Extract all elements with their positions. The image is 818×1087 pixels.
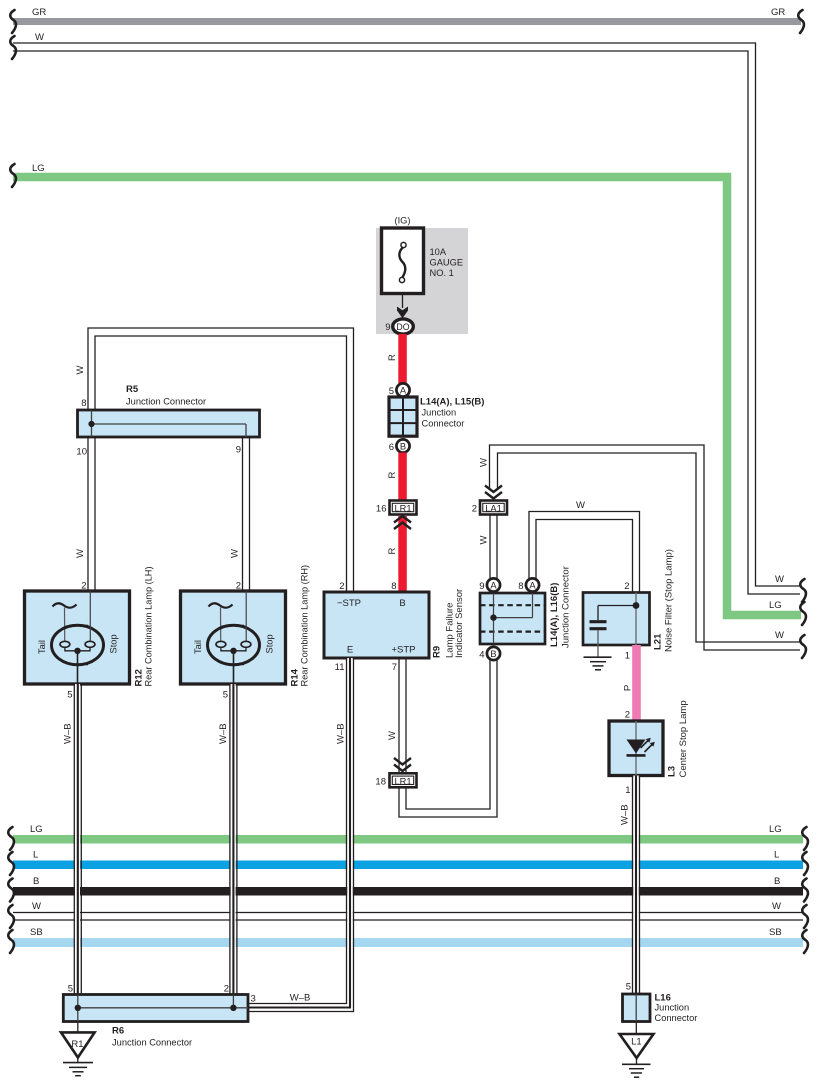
svg-text:L1: L1: [631, 1037, 642, 1048]
svg-text:SB: SB: [769, 927, 782, 938]
ground L1: [620, 1022, 654, 1078]
svg-text:Stop: Stop: [109, 634, 119, 653]
svg-text:GR: GR: [32, 7, 46, 18]
svg-text:L16: L16: [655, 992, 671, 1003]
svg-text:8: 8: [81, 398, 86, 409]
svg-text:DO: DO: [396, 322, 409, 332]
svg-text:B: B: [774, 876, 780, 887]
lamp failure indicator sensor R9: [324, 589, 465, 673]
svg-text:W: W: [576, 500, 585, 511]
terminal A pin 5: [389, 383, 410, 396]
svg-text:10A: 10A: [430, 247, 447, 257]
wire W from LA1 up, right, down to right-edge W stub: [479, 445, 806, 658]
svg-text:GAUGE: GAUGE: [430, 258, 464, 268]
svg-text:2: 2: [624, 581, 629, 592]
svg-text:5: 5: [389, 386, 394, 397]
svg-text:1: 1: [625, 651, 630, 662]
connector LA1 pin 2 (with down-chevron): [472, 486, 507, 515]
svg-text:W: W: [479, 535, 490, 544]
svg-text:L: L: [33, 850, 38, 861]
svg-text:A: A: [400, 385, 407, 395]
svg-text:B: B: [33, 876, 39, 887]
svg-text:W: W: [479, 458, 490, 467]
svg-text:9: 9: [236, 445, 241, 456]
svg-text:9: 9: [479, 581, 484, 592]
svg-text:L14(A), L16(B): L14(A), L16(B): [549, 583, 560, 647]
svg-text:E: E: [347, 645, 353, 656]
wire W, R9 pin 7 (+STP) down to connector LR1 pin 18, with down-chevron: [387, 658, 411, 774]
svg-text:Noise Filter (Stop Lamp): Noise Filter (Stop Lamp): [664, 549, 675, 652]
svg-text:W: W: [35, 32, 44, 43]
svg-text:W: W: [772, 901, 781, 912]
junction connector R5: [76, 384, 259, 458]
ground symbol at L21 capacitor: [584, 657, 612, 670]
svg-text:R: R: [387, 354, 398, 361]
svg-text:11: 11: [335, 662, 345, 673]
svg-text:LA1: LA1: [485, 504, 502, 514]
svg-text:4: 4: [479, 650, 484, 661]
wire W, R5 pin 8 up/right/down to R9 pin 2 (-STP): [75, 328, 354, 592]
svg-text:W: W: [230, 549, 241, 558]
svg-text:Junction: Junction: [655, 1003, 690, 1013]
svg-text:B: B: [490, 649, 496, 659]
bus GR (top): [10, 7, 804, 33]
wire fuse to terminal DO: [397, 294, 408, 319]
svg-text:A: A: [490, 580, 497, 590]
svg-text:W–B: W–B: [290, 993, 311, 1004]
svg-text:W: W: [75, 549, 86, 558]
svg-text:3: 3: [251, 994, 256, 1005]
svg-text:7: 7: [392, 662, 397, 673]
svg-text:5: 5: [67, 690, 72, 701]
svg-text:L3: L3: [667, 766, 678, 777]
svg-text:10: 10: [76, 447, 87, 458]
svg-text:5: 5: [223, 690, 228, 701]
svg-text:Center Stop Lamp: Center Stop Lamp: [678, 700, 689, 777]
svg-text:2: 2: [224, 984, 229, 995]
svg-text:(IG): (IG): [394, 216, 410, 226]
svg-text:B: B: [399, 598, 405, 609]
junction connector R6: [63, 984, 255, 1048]
wire R (red), LR1 to R9 pin 8, with up-chevron arrow: [387, 516, 411, 592]
svg-text:LR1: LR1: [394, 504, 411, 514]
svg-text:LG: LG: [769, 600, 782, 611]
svg-text:Tail: Tail: [193, 640, 203, 654]
svg-text:9: 9: [385, 322, 390, 333]
junction connector L16: [623, 992, 698, 1023]
fuse gray background: [376, 228, 468, 334]
svg-text:Rear Combination Lamp (LH): Rear Combination Lamp (LH): [144, 567, 154, 687]
svg-text:R9: R9: [432, 646, 443, 658]
svg-text:Connector: Connector: [655, 1013, 698, 1023]
svg-text:B: B: [400, 441, 406, 451]
terminal B pin 4: [479, 647, 500, 661]
terminal B pin 6: [389, 439, 410, 452]
svg-text:LG: LG: [30, 824, 43, 835]
wire W-B, R14 pin 5 down to R6 pin 2 (crosses buses): [218, 684, 237, 995]
svg-text:8: 8: [391, 581, 396, 592]
rear combination lamp R14 (RH): [181, 565, 310, 687]
svg-text:R5: R5: [126, 384, 139, 395]
junction connector L14(A), L15(B): [389, 397, 484, 437]
bus L (bottom): [8, 850, 808, 876]
svg-text:1: 1: [625, 785, 630, 796]
svg-text:5: 5: [68, 984, 73, 995]
fuse 10A GAUGE NO. 1 (IG): [382, 216, 464, 294]
bus LG, runs right then down to right-edge LG stub: [10, 163, 806, 625]
svg-text:W–B: W–B: [63, 723, 74, 744]
connector LR1 pin 18: [375, 773, 416, 787]
svg-text:GR: GR: [771, 7, 785, 18]
svg-text:LG: LG: [32, 163, 45, 174]
svg-text:R: R: [387, 547, 398, 554]
svg-text:−STP: −STP: [337, 598, 361, 609]
junction connector L14(A), L16(B): [480, 566, 572, 648]
bus W (top), runs right then down to right-edge W stub: [10, 32, 806, 602]
svg-text:P: P: [623, 685, 634, 691]
wire W, R5 pin 10 down to R12 pin 2: [75, 437, 95, 592]
svg-text:Indicator Sensor: Indicator Sensor: [454, 589, 465, 658]
terminal A pin 9: [479, 578, 500, 592]
svg-text:Rear Combination Lamp (RH): Rear Combination Lamp (RH): [300, 565, 310, 687]
wire R (red), DO to terminal A: [387, 334, 407, 384]
svg-text:Stop: Stop: [265, 634, 275, 653]
bus SB (bottom): [8, 927, 808, 953]
wire P (pink), L21 pin 1 down to L3 pin 2: [623, 645, 641, 721]
bus W (bottom, double line): [8, 901, 808, 928]
svg-text:2: 2: [472, 504, 477, 515]
terminal A pin 8: [518, 578, 539, 592]
bus LG (bottom): [8, 824, 808, 850]
svg-text:W: W: [387, 731, 398, 740]
wire W-B, R9 pin 11 (E) down then left to R6 pin 3 (crosses buses): [248, 658, 354, 1012]
svg-text:L21: L21: [653, 633, 664, 650]
terminal DO pin 9: [385, 319, 413, 334]
svg-text:Junction Connector: Junction Connector: [126, 397, 206, 407]
wire W-B, L3 pin 1 down to L16 pin 5 (crosses buses): [620, 776, 640, 995]
svg-text:18: 18: [375, 776, 386, 787]
svg-text:R: R: [387, 471, 398, 478]
svg-text:6: 6: [389, 442, 394, 453]
svg-text:L14(A), L15(B): L14(A), L15(B): [420, 397, 484, 408]
svg-text:+STP: +STP: [392, 645, 416, 656]
wire W, terminal A pin 8 up/right/down to L21 pin 2: [529, 500, 640, 593]
svg-text:A: A: [529, 580, 536, 590]
wire W, R5 pin 9 down to R14 pin 2: [230, 437, 250, 592]
svg-text:2: 2: [625, 710, 630, 721]
svg-text:W–B: W–B: [620, 804, 631, 825]
svg-text:5: 5: [626, 982, 631, 993]
wire R (red), B to connector LR1 pin 16: [387, 453, 407, 502]
svg-text:R6: R6: [112, 1026, 124, 1037]
svg-text:W: W: [775, 630, 784, 641]
svg-text:R1: R1: [71, 1039, 83, 1050]
ground R1: [61, 1022, 95, 1076]
wire W, LR1 pin 18 down/right/up to terminal B pin 4: [399, 660, 497, 817]
svg-text:2: 2: [339, 581, 344, 592]
svg-text:W: W: [32, 901, 41, 912]
svg-text:L: L: [774, 850, 779, 861]
svg-text:Tail: Tail: [37, 640, 47, 654]
svg-text:LR1: LR1: [394, 776, 411, 786]
svg-text:W: W: [775, 574, 784, 585]
connector LR1 pin 16 (with up arrow): [376, 501, 417, 515]
wire W, LA1 down to terminal A pin 9: [479, 515, 498, 579]
rear combination lamp R12 (LH): [25, 567, 154, 687]
wire W-B, R12 pin 5 down to R6 pin 5 (crosses buses): [63, 684, 82, 995]
noise filter L21 (stop lamp): [583, 549, 675, 657]
bus B (bottom): [8, 876, 808, 902]
svg-text:Junction Connector: Junction Connector: [112, 1038, 192, 1048]
svg-text:8: 8: [518, 581, 523, 592]
svg-text:Junction Connector: Junction Connector: [561, 566, 572, 648]
svg-text:W–B: W–B: [218, 723, 229, 744]
svg-text:NO. 1: NO. 1: [430, 268, 454, 278]
svg-text:W: W: [75, 365, 86, 374]
svg-text:Connector: Connector: [422, 419, 465, 429]
center stop lamp L3 (LED): [609, 700, 689, 777]
svg-text:W–B: W–B: [336, 723, 347, 744]
svg-text:Junction: Junction: [422, 408, 457, 418]
svg-text:LG: LG: [769, 824, 782, 835]
svg-text:SB: SB: [30, 927, 43, 938]
svg-text:16: 16: [376, 504, 387, 515]
